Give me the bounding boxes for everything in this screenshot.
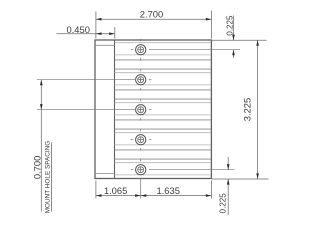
svg-text:2.700: 2.700 (140, 8, 163, 19)
H3 centerline dashes (37, 99, 151, 121)
gap band 2 (115, 90, 212, 99)
mount hole spacing note underline (51, 143, 53, 212)
dimension 3.225 extension line (212, 178, 269, 180)
dimension 2.700 arrows (96, 18, 211, 21)
svg-text:0.225: 0.225 (226, 15, 235, 36)
mount hole H3 (136, 105, 146, 115)
dimension 2.700 extension lines (96, 11, 211, 39)
svg-text:1.635: 1.635 (156, 185, 179, 196)
mount hole H1 (136, 45, 146, 55)
H1 centerline dashes (131, 39, 240, 61)
dimension 0.700 mount hole spacing line (40, 80, 42, 212)
mount hole H4 (136, 135, 146, 145)
mount hole H2 (136, 75, 146, 85)
svg-text:0.225: 0.225 (219, 193, 228, 214)
saddle 4 edges (115, 133, 212, 145)
dimension 0.450 extension line (114, 27, 116, 39)
dimension 0.225 bottom-right arrows (227, 164, 230, 185)
dimension 1.635 arrows (141, 194, 212, 197)
dimension 0.225 bottom-right line (227, 157, 229, 215)
dimension 1.065 arrows (96, 194, 141, 197)
svg-text:MOUNT HOLE SPACING: MOUNT HOLE SPACING (44, 141, 51, 214)
dimension 0.700 arrows (40, 80, 43, 110)
H2 centerline dashes (37, 69, 151, 91)
dimension 3.225 arrows (256, 40, 259, 179)
left flange bend lines (95, 45, 115, 173)
dimension 0.225 top-right arrows (232, 35, 235, 56)
dimension 0.450 arrows (96, 32, 115, 35)
gap band 1 (115, 60, 212, 69)
gap band 3 (115, 120, 212, 129)
saddle 2 edges (115, 73, 212, 85)
saddle 1 edges (115, 43, 212, 55)
dimension 0.225 top-right extension lines (211, 39, 266, 41)
dimension 2.700 line (96, 18, 211, 20)
saddle 5 edges (115, 163, 212, 175)
svg-text:0.450: 0.450 (66, 24, 89, 35)
svg-text:0.700: 0.700 (31, 156, 42, 179)
gap band 4 (115, 150, 212, 159)
dimension 0.450 line (57, 33, 115, 35)
dimension 3.225 line (257, 40, 259, 179)
saddle 3 edges (115, 103, 212, 115)
mount hole H5 (136, 165, 146, 175)
bridge base plate outline (95, 40, 211, 179)
dimension 1.065/1.635 line (96, 195, 211, 197)
dimension 1.065/1.635 extension lines (96, 181, 211, 199)
svg-text:3.225: 3.225 (241, 98, 252, 121)
svg-text:1.065: 1.065 (104, 185, 127, 196)
dimension 0.225 top-right line (233, 16, 235, 59)
H5 centerline dashes (131, 159, 235, 199)
H4 centerline dashes (131, 129, 152, 151)
